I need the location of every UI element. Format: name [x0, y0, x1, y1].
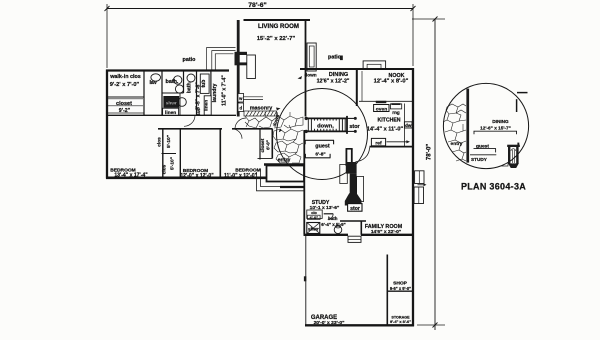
stor box lower [348, 204, 362, 212]
svg-text:linen: linen [204, 100, 209, 111]
inset study label [470, 154, 496, 156]
stairs down label [312, 121, 338, 129]
counter east [404, 104, 406, 147]
porch step 2 [257, 172, 305, 191]
wall: bath/bath2 divider [183, 71, 185, 94]
svg-text:6'-0": 6'-0" [265, 140, 270, 150]
range box [390, 104, 401, 109]
masonry hatch short upper [243, 96, 263, 98]
inset stairs [507, 145, 520, 147]
svg-text:walk-in clos: walk-in clos [109, 74, 141, 80]
svg-text:5'-10": 5'-10" [166, 135, 172, 148]
wall: bath2 east [196, 71, 198, 116]
svg-text:tub: tub [201, 80, 207, 88]
wall: bedroom1 east / closets west [162, 129, 164, 177]
wall: living room east [305, 20, 307, 117]
svg-text:PLAN 3604-3A: PLAN 3604-3A [461, 182, 526, 192]
wall: bedroom wing south [106, 177, 267, 180]
bath door wall [324, 213, 334, 215]
wall: entry south [264, 163, 304, 165]
dw box [404, 122, 412, 128]
garage walls [305, 236, 307, 325]
svg-text:STUDY: STUDY [471, 157, 488, 162]
wall: shwr/linen partition [162, 92, 184, 94]
svg-text:guest: guest [315, 144, 330, 150]
svg-text:shwr: shwr [308, 227, 319, 232]
svg-text:11'-0" x 12'-0": 11'-0" x 12'-0" [224, 173, 258, 179]
svg-text:9'-4" x 8'-6": 9'-4" x 8'-6" [390, 319, 411, 324]
wall: entry closet east [271, 129, 273, 159]
wall: study west [303, 130, 305, 235]
svg-text:12'-4" x 8'-0": 12'-4" x 8'-0" [374, 79, 409, 85]
inset west wall [466, 89, 469, 163]
svg-text:d: d [240, 106, 243, 111]
family east windows [415, 171, 424, 184]
svg-text:12'-0" x 12'-0": 12'-0" x 12'-0" [180, 173, 214, 179]
svg-text:w: w [238, 96, 243, 101]
wall: corridor south / bedrooms north [158, 128, 222, 130]
basement stair black mass [346, 162, 357, 174]
wall: left wing west [106, 70, 108, 179]
svg-text:dw: dw [405, 123, 412, 128]
wall: bedroom2/bedroom3 divider [219, 129, 221, 177]
masonry hatch band [244, 111, 277, 116]
stair treads [308, 118, 345, 131]
main stairs rails [306, 117, 348, 119]
shop walls [386, 255, 388, 326]
svg-text:20'-0' x 23'-0": 20'-0' x 23'-0" [314, 320, 345, 326]
svg-text:clos: clos [157, 137, 162, 147]
svg-text:linen: linen [165, 110, 176, 116]
wall: closets east / bedroom2 west [179, 129, 181, 177]
svg-text:lav: lav [196, 108, 201, 115]
wall: bath block south [106, 114, 236, 116]
svg-text:down: down [304, 73, 316, 78]
patio post [340, 56, 343, 61]
tub box [200, 74, 209, 93]
svg-text:clos: clos [162, 164, 167, 174]
basement stair rails black [345, 149, 347, 167]
wall: bath-study south [304, 234, 349, 236]
svg-text:LIVING ROOM: LIVING ROOM [258, 23, 299, 30]
svg-text:KITCHEN: KITCHEN [377, 118, 400, 124]
planter rects on living east wall [307, 43, 316, 71]
wall: walkin/lav divider [143, 71, 145, 116]
extension line left [106, 4, 108, 68]
svg-text:patio: patio [328, 54, 342, 60]
svg-text:closet: closet [116, 101, 132, 107]
wall: living room north [244, 19, 311, 21]
wall: left wing north [106, 69, 229, 71]
ref arrow [387, 141, 408, 143]
svg-text:stor: stor [349, 124, 360, 130]
wall: study north wing wall [280, 186, 304, 188]
ref box [371, 138, 385, 145]
svg-text:11'-0" x 7'-4": 11'-0" x 7'-4" [222, 75, 228, 106]
wall: stor strip south [340, 220, 366, 222]
svg-text:9-6" x 9'-0": 9-6" x 9'-0" [390, 286, 411, 291]
inset top right walls [516, 99, 518, 112]
svg-text:stor: stor [350, 206, 360, 212]
porch box [267, 166, 305, 182]
window arrow [418, 184, 426, 186]
svg-text:STUDY: STUDY [312, 200, 330, 206]
shwr box [164, 96, 179, 107]
kitchen south wall [370, 146, 413, 148]
basement stair outline box left [340, 165, 348, 184]
porch step 1 [261, 169, 305, 187]
wall: tub strip east / laundry west [210, 71, 212, 116]
guest bracket [305, 139, 334, 141]
svg-text:15'-2" x 22'-7": 15'-2" x 22'-7" [257, 36, 296, 42]
wall: walkin closet shelf lines [107, 96, 144, 98]
oven top bar [376, 101, 387, 103]
svg-text:patio: patio [183, 57, 197, 63]
svg-text:13'-4" x 17'-4": 13'-4" x 17'-4" [114, 172, 148, 178]
svg-text:laundry: laundry [212, 84, 218, 103]
extension line top right [412, 18, 445, 20]
dimension line right 78'-0" [426, 17, 437, 331]
bath toilet and sink [174, 76, 182, 84]
svg-text:12'6" x 12'-2": 12'6" x 12'-2" [317, 78, 350, 84]
kitchen west wall [356, 69, 358, 106]
extension line right [412, 4, 414, 66]
svg-text:bath: bath [328, 216, 338, 221]
svg-text:78'-6": 78'-6" [248, 2, 266, 9]
patio corner steps [207, 48, 236, 70]
wall: lav/bath divider [161, 71, 163, 116]
nook bay window bump [363, 61, 386, 69]
fireplace masonry mass [235, 52, 248, 66]
study closet box [307, 210, 322, 218]
hearth box below wall [348, 236, 361, 242]
flagstone mesh entry [245, 112, 303, 163]
dimension line top 78'-6" [105, 2, 416, 11]
svg-text:4'-0": 4'-0" [309, 215, 318, 220]
washer dryer boxes [238, 94, 244, 103]
wall: east outer [412, 68, 414, 326]
svg-text:12'-6" x 15'-7": 12'-6" x 15'-7" [480, 126, 511, 131]
svg-text:masonry: masonry [250, 106, 272, 112]
extension line bottom right [417, 324, 445, 326]
corridor door arcs [184, 116, 195, 127]
svg-text:6'-4" x 5'-9": 6'-4" x 5'-9" [321, 222, 345, 227]
linen2 box rotated [204, 96, 211, 115]
linen box [163, 108, 179, 115]
wall: family west short [360, 221, 362, 235]
kitchen door arc [356, 148, 370, 162]
svg-text:shwr: shwr [166, 101, 177, 107]
svg-text:6'-8": 6'-8" [315, 151, 325, 157]
inset flagstones [443, 104, 466, 161]
svg-text:DINING: DINING [329, 72, 349, 78]
big circle reference [277, 89, 368, 180]
basement stair outline box right [357, 177, 364, 202]
wall: dining-nook north [300, 68, 412, 70]
svg-text:down,: down, [317, 124, 334, 130]
svg-text:9'-2' x 7'-0": 9'-2' x 7'-0" [110, 82, 140, 88]
svg-text:DINING: DINING [492, 119, 509, 124]
kitchen counter [359, 100, 412, 102]
svg-text:9'-2": 9'-2" [119, 108, 131, 114]
wall: living west black [237, 20, 240, 53]
svg-text:rng: rng [392, 110, 400, 115]
wall: family room south [361, 234, 414, 236]
wall: closets mid [162, 153, 177, 155]
oven box [374, 105, 389, 112]
hearth outline [247, 55, 256, 79]
svg-text:14'-4" x 11'-0": 14'-4" x 11'-0" [367, 126, 404, 132]
svg-text:ref: ref [375, 140, 382, 146]
svg-text:14'6" x 22'-0": 14'6" x 22'-0" [371, 229, 401, 235]
wall: bedroom3 east [259, 129, 261, 160]
svg-text:78'-0": 78'-0" [426, 144, 432, 160]
svg-text:oven: oven [376, 107, 387, 112]
shower box dark [307, 223, 320, 234]
svg-text:5'-10": 5'-10" [170, 157, 176, 170]
toilet lower bath [334, 226, 342, 234]
inset circle [443, 83, 528, 168]
svg-text:bath: bath [186, 82, 192, 93]
wall: entry closet south [258, 158, 273, 160]
